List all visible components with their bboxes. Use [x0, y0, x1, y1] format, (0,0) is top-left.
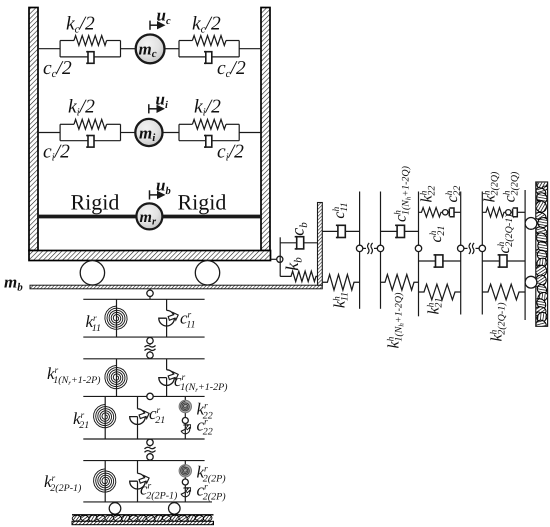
- rot spring kr1N (spiral): [105, 365, 127, 388]
- rot damper cr21: [130, 409, 146, 425]
- svg-text:Rigid: Rigid: [178, 190, 227, 215]
- roller bottom right: [169, 503, 181, 515]
- wheel right: [195, 261, 219, 285]
- damper ch2Q: [511, 211, 513, 213]
- rung 7: [83, 501, 212, 503]
- label kh22: [419, 186, 438, 203]
- spring kc/2 left: [74, 36, 107, 46]
- wire mass mc to right box: [164, 48, 179, 50]
- rail 5: [481, 192, 483, 315]
- spring kh11: [322, 275, 359, 291]
- rail 4: [460, 192, 462, 315]
- wire mass mi to right box: [163, 132, 180, 134]
- wire damper col c4: [137, 461, 139, 474]
- rot damper cr11: [159, 310, 175, 326]
- spring kh2Q1: [482, 284, 525, 300]
- break ring top 2: [147, 439, 153, 445]
- spring kh21: [419, 284, 461, 300]
- label kh2Q: [482, 171, 501, 202]
- ring on rail3: [415, 245, 421, 251]
- node below platform: [147, 290, 153, 296]
- spring kh22: [419, 208, 443, 217]
- label ch2Q: [502, 171, 521, 202]
- label kb: [282, 257, 305, 271]
- platform mb (hatched strip): [30, 285, 322, 289]
- kelvin box right row2: [179, 124, 239, 140]
- rot spring kr22 (gray spiral): [179, 400, 191, 412]
- svg-text:Rigid: Rigid: [71, 190, 120, 215]
- damper cb: [295, 237, 304, 249]
- tank left wall (hatched): [29, 8, 38, 251]
- rung 6: [83, 460, 204, 462]
- label kh11: [332, 292, 351, 308]
- right wall (rubble): [534, 178, 550, 331]
- node kr22-cr22: [182, 418, 188, 424]
- ring on rail4: [458, 245, 464, 251]
- label ch2Q1: [496, 214, 515, 254]
- wire c1N branch: [381, 230, 419, 232]
- mass mc: [136, 35, 165, 64]
- svg-text:kc/2: kc/2: [66, 14, 95, 36]
- tank bottom (hatched): [29, 251, 271, 261]
- wheel left: [80, 261, 104, 285]
- wire spiral col c2: [116, 359, 118, 397]
- L-wall (hatched): [318, 203, 323, 286]
- label ch11: [331, 202, 350, 218]
- svg-text:cc/2: cc/2: [43, 58, 72, 80]
- wire spiral col c4: [104, 461, 106, 502]
- damper ch1N: [395, 225, 404, 237]
- ring k2Q-c2Q: [506, 210, 511, 215]
- break ring bottom 2: [147, 454, 153, 460]
- kelvin box left row1: [60, 41, 120, 57]
- kelvin box right row1: [179, 41, 239, 57]
- node kr2P-cr2P: [182, 479, 188, 485]
- label cb: [288, 222, 311, 236]
- break ring bottom 1: [147, 352, 153, 358]
- spring kh1N: [381, 275, 419, 291]
- rail 2: [380, 192, 382, 309]
- wire damper col c1: [166, 299, 168, 310]
- wire spiral col c3: [104, 396, 106, 439]
- wire c11 branch: [322, 230, 359, 232]
- wire series col c3: [184, 396, 186, 439]
- ring k22-c22: [443, 210, 448, 215]
- wire box to mass mc: [121, 48, 137, 50]
- rail 1: [359, 192, 361, 309]
- wire tank to node: [271, 258, 277, 260]
- node on tank: [277, 256, 283, 262]
- mass mr: [136, 203, 162, 229]
- mass mi: [135, 119, 162, 146]
- rung 4: [83, 395, 204, 397]
- label kh21: [426, 298, 445, 315]
- roller lower right: [525, 276, 537, 288]
- svg-text:ci/2: ci/2: [43, 142, 70, 164]
- rot spring kr2P1 (spiral): [94, 469, 116, 492]
- spring ki/2 left: [74, 119, 107, 129]
- rung 2: [83, 336, 204, 338]
- wire ch2Q1 branch: [482, 260, 525, 262]
- tank right wall (hatched): [261, 8, 270, 251]
- spring kh2Q: [482, 208, 505, 217]
- rung 1: [83, 298, 204, 300]
- svg-text:cc/2: cc/2: [217, 58, 246, 80]
- damper ch22: [448, 211, 449, 213]
- kelvin box left row2: [60, 124, 120, 140]
- ring on rail1: [356, 245, 362, 251]
- rung 5: [83, 438, 204, 440]
- break ring top 1: [147, 338, 153, 344]
- damper ci/2 right: [204, 136, 212, 148]
- label ch22: [444, 186, 463, 203]
- label kh2Q1: [489, 302, 508, 342]
- svg-text:ki/2: ki/2: [194, 97, 221, 119]
- spring ki/2 right: [192, 119, 226, 129]
- wire wall to left box row2: [38, 132, 60, 134]
- rail 3: [418, 192, 420, 317]
- break squiggle v 2: [149, 446, 151, 447]
- wire damper col c3: [137, 396, 139, 408]
- damper ch2Q1: [498, 255, 507, 267]
- stem from platform: [149, 289, 151, 300]
- ground (hatched with pebbles): [72, 514, 214, 524]
- rot damper cr2P: [179, 485, 193, 498]
- roller upper right: [525, 218, 537, 230]
- rot spring kr11 (spiral): [105, 306, 127, 329]
- ring on rail5: [479, 245, 485, 251]
- rigid bar: [38, 215, 261, 219]
- wire series col c4: [184, 461, 186, 502]
- wire wall to left box row1: [38, 48, 60, 50]
- label ch1N: [393, 165, 413, 222]
- node on rung4: [147, 393, 153, 399]
- rot damper cr1N: [159, 370, 175, 386]
- wire damper col c2: [166, 359, 168, 370]
- rot damper cr22: [179, 422, 193, 435]
- rot spring kr2P (gray spiral): [179, 465, 191, 477]
- damper cc/2 left: [86, 52, 94, 64]
- label ch21: [428, 226, 447, 243]
- svg-text:kc/2: kc/2: [192, 14, 221, 36]
- rot spring kr21 (spiral): [94, 404, 116, 427]
- break squiggle h 1: [363, 247, 366, 249]
- wire cb branch: [280, 242, 317, 244]
- wire right box to wall row2: [239, 132, 261, 134]
- branch vertical wire: [279, 237, 281, 276]
- spring kb: [280, 271, 317, 281]
- spring kc/2 right: [192, 36, 226, 46]
- label kh1N: [386, 292, 406, 349]
- rung 3: [83, 358, 204, 360]
- wire box to mass mi: [121, 132, 136, 134]
- damper cc/2 right: [204, 52, 212, 64]
- wire spiral col c1: [116, 299, 118, 337]
- wire right box to wall row1: [239, 48, 261, 50]
- damper ch11: [336, 225, 345, 237]
- ring on rail2: [377, 245, 383, 251]
- wire ch21 branch: [419, 260, 461, 262]
- break squiggle h 2: [464, 247, 468, 249]
- break squiggle v 1: [149, 344, 151, 345]
- roller bottom left: [109, 503, 121, 515]
- rail 6: [524, 190, 526, 320]
- damper ch21: [434, 255, 443, 267]
- rot damper cr2P1: [130, 473, 146, 489]
- damper ci/2 left: [86, 136, 94, 148]
- svg-text:ci/2: ci/2: [217, 142, 244, 164]
- svg-text:ki/2: ki/2: [68, 97, 95, 119]
